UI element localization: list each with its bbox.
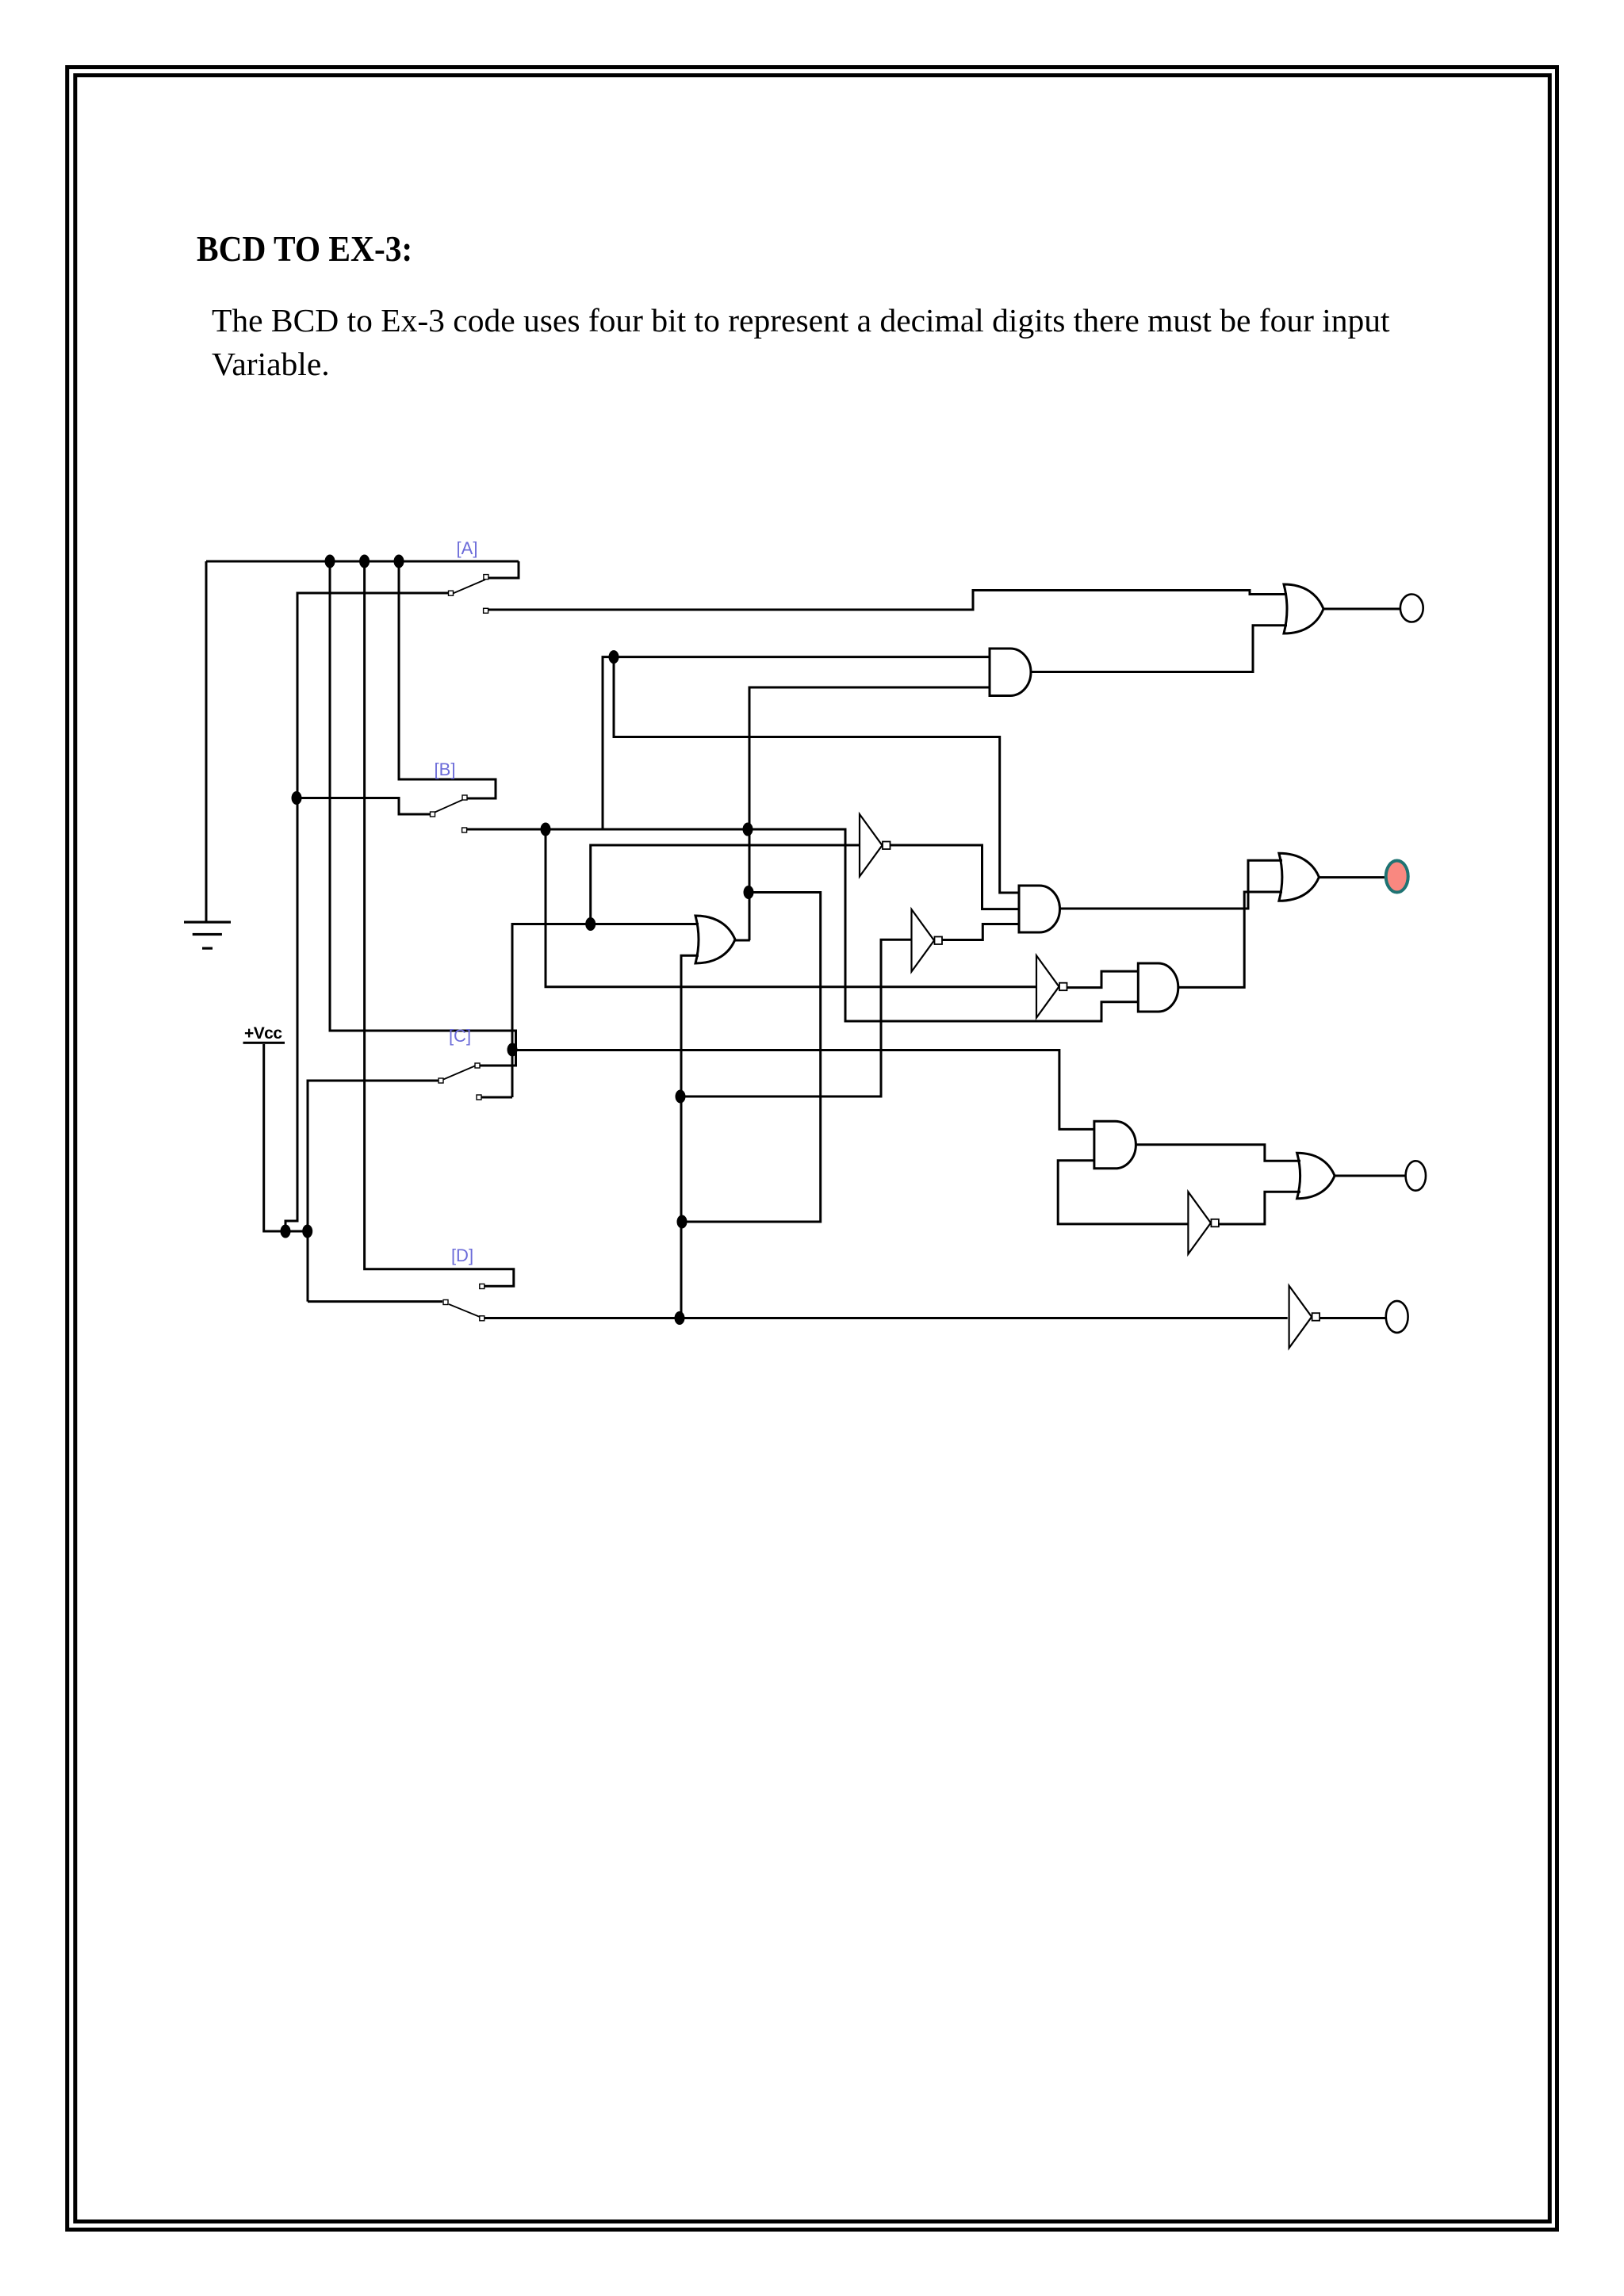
svg-text:+Vcc: +Vcc (244, 1024, 282, 1043)
inverter NOT1 (860, 814, 891, 877)
wire D riser to OR4 bottom input (681, 955, 699, 1318)
switch D pole contact (443, 1300, 448, 1305)
wire C out to OR4 top input (512, 924, 699, 1098)
wire AND4 lower input to NOT4 input (1058, 1161, 1188, 1224)
paragraph text (212, 301, 1390, 339)
OR gate O4 (middle) (695, 916, 735, 963)
junction bus/B feed (394, 555, 404, 568)
wire NOT4 output to OR3 bottom input (1219, 1192, 1300, 1224)
ground (184, 921, 231, 950)
switch A pole contact (449, 591, 454, 595)
switch C pole contact (439, 1078, 443, 1083)
wire C out to NOT1 input (591, 845, 860, 924)
wire OR4 output (735, 939, 750, 942)
switch A upper contact (484, 575, 488, 580)
output probe Z (1386, 1301, 1408, 1333)
wire Vcc rail (264, 1044, 308, 1231)
switch D lever (449, 1304, 480, 1317)
junction bus/D feed (359, 555, 370, 568)
wire D out to NOT2 input (680, 939, 912, 1096)
wire C out to AND4 top input (512, 1050, 1094, 1130)
svg-text:[A]: [A] (457, 538, 478, 558)
junction D riser/x1034 (677, 1215, 688, 1229)
svg-text:[C]: [C] (449, 1026, 471, 1046)
junction B out/riser (743, 823, 753, 836)
wire node riser to AND1 bottom input (749, 687, 990, 940)
inverter NOT2 (912, 909, 943, 972)
switch C lower contact (477, 1095, 481, 1100)
output probe Y (1406, 1161, 1426, 1190)
inverter NOT4 (1188, 1192, 1219, 1254)
svg-text:[D]: [D] (451, 1246, 473, 1265)
wire NOT1 output to AND2 middle input (890, 845, 1019, 909)
switch B lever (432, 800, 462, 813)
junction C out (507, 1043, 518, 1057)
switch C upper contact (475, 1063, 480, 1068)
junction AND1 feed (609, 650, 619, 664)
junction B out (541, 823, 551, 836)
wire NOT3 output to AND3 top input (1067, 971, 1138, 988)
wire ground bus (206, 561, 519, 563)
switch B pole contact (431, 812, 435, 817)
junction bottom run/D riser (675, 1311, 685, 1325)
wire C pole (308, 1081, 439, 1302)
switch B upper contact (462, 795, 467, 800)
switch D lower contact (480, 1316, 485, 1321)
AND gate A1 (top) (990, 649, 1031, 696)
wire to AND2 top input (614, 657, 1019, 893)
junction D riser/NOT2 (676, 1090, 686, 1104)
wire NOT5 output (1319, 1317, 1386, 1319)
AND gate A4 (bottom) (1094, 1121, 1136, 1169)
wire D out bottom run to NOT5 (485, 1317, 1288, 1319)
junction Vcc/C-D pole (302, 1225, 312, 1238)
switch D upper contact (480, 1284, 485, 1289)
wire NOT2 output to AND2 bottom input (941, 924, 1019, 940)
wire A out to OR1 top input (488, 591, 1287, 610)
switch B lower contact (462, 828, 467, 832)
junction A-B pole (292, 791, 302, 805)
power +Vcc label (243, 1024, 285, 1044)
svg-text:[B]: [B] (435, 760, 456, 779)
wire OR2 output to probe (1319, 876, 1386, 878)
wire B out to AND3 lower input (467, 829, 1138, 1021)
junction riser mid (744, 886, 754, 899)
wire left rail to ground (205, 561, 208, 921)
AND gate A3 (1138, 963, 1178, 1012)
wire B upper throw feed (399, 561, 496, 798)
wire node to riser x1034 (682, 893, 821, 1223)
wire B pole (297, 798, 430, 815)
inverter NOT3 (1036, 955, 1067, 1018)
wire B out to NOT3 input (546, 829, 1036, 987)
wire AND1 output to OR1 bottom input (1031, 626, 1287, 672)
junction bus/C feed (325, 555, 335, 568)
AND gate A2 (middle, 3-input) (1019, 886, 1060, 932)
wire B out to AND1 top input (603, 657, 990, 829)
inverter NOT5 (1289, 1286, 1320, 1349)
wire A pole to Vcc (285, 593, 450, 1231)
switch A lower contact (484, 608, 488, 613)
wire D upper throw feed (365, 561, 514, 1286)
switch C lever (442, 1066, 476, 1080)
OR gate O2 (red probe) (1279, 853, 1319, 901)
wire OR3 output (1335, 1175, 1406, 1177)
wire AND3 output to OR2 bottom input (1178, 892, 1282, 987)
wire A upper throw (486, 561, 519, 578)
output probe X (red, on) (1386, 861, 1408, 893)
wire D pole (308, 1300, 442, 1303)
heading BCD TO EX-3: (197, 228, 412, 270)
OR gate O1 (top output) (1284, 584, 1323, 633)
output probe W (top) (1400, 595, 1423, 622)
wire OR1 output (1323, 608, 1400, 610)
junction C out/NOT1 (585, 917, 596, 931)
wire C upper throw feed (330, 561, 516, 1066)
OR gate O3 (1297, 1153, 1335, 1199)
junction Vcc/A pole (281, 1225, 291, 1238)
wire C lower contact (481, 1096, 512, 1099)
wire AND2 output to OR2 top input (1060, 860, 1282, 909)
wire AND4 output to OR3 top input (1136, 1145, 1300, 1161)
switch A lever (452, 580, 485, 594)
